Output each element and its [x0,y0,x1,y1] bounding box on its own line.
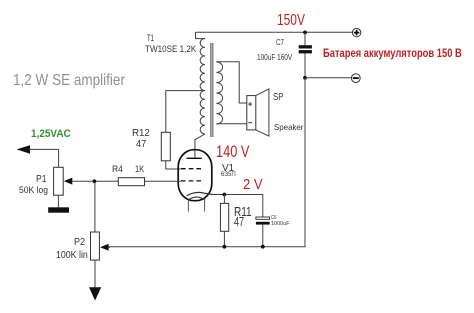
label P2 [74,238,85,248]
speaker SP [247,89,269,136]
resistor R4 [118,178,144,186]
wire UL tap to R12 [166,91,203,133]
label C6 value [271,222,290,228]
label P1 [36,175,47,185]
label R12 value 47 [136,139,146,150]
wire P2 wiper to bottom rail [108,246,110,248]
node P1 wiper junction [93,179,97,183]
resistor R12 [161,132,170,161]
wire R11 bottom [223,231,225,246]
label R11 [234,205,252,218]
capacitor C6 minus plate [256,222,270,225]
ground arrow below P2 [89,287,101,300]
label C7 [276,39,284,47]
wire secondary bottom to speaker minus [216,123,246,125]
label 50K log [19,185,48,194]
label SP [273,93,283,103]
label 150V [277,13,305,29]
wire C7 bottom lead [304,53,306,77]
label battery red [323,49,462,61]
resistor R11 [220,203,228,231]
wire B+ top rail [196,31,353,33]
label R12 [132,129,150,139]
potentiometer P1 [54,167,64,195]
wire secondary top to speaker plus [216,62,246,103]
node battery minus junction [303,76,307,80]
label T1 [147,34,154,43]
tube V1 envelope [178,150,212,201]
label C6 [271,216,276,222]
capacitor C6 plus plate [256,217,270,219]
wire minus rail right side and bottom rail [109,78,306,247]
tube plate [187,157,202,159]
label 2 V [243,178,263,193]
title text [13,73,125,89]
potentiometer P2 [91,232,100,260]
ground bar below P1 [48,207,69,212]
tube heater [188,197,204,200]
wire P1 wiper to R4 [72,180,118,182]
node 150V junction [303,31,307,35]
wire C6 bottom [262,225,264,247]
label tube type [221,172,236,179]
transformer T1 secondary winding [216,62,222,124]
wire C7 top lead [304,32,306,45]
wire input to P1 [30,149,59,167]
transformer T1 primary top lead [196,32,206,38]
capacitor C7 [299,45,312,53]
wire junction down to P2 [94,181,96,232]
label 1K [135,164,144,173]
P2 wiper arrow [100,244,109,251]
wire to minus terminal [305,77,351,79]
battery plus terminal [352,28,360,36]
wire primary bottom to plate [195,134,205,158]
tube cathode [187,192,213,195]
wire P1 bottom to ground [57,195,59,207]
tube heater pins [188,199,204,212]
wire R12 to screen grid [166,161,181,169]
wire R4 to control grid [145,180,182,182]
label Speaker [274,123,303,132]
input terminal arrow [17,145,31,154]
transformer core [211,43,213,137]
label C7 value [257,53,292,62]
tube screen grid (dashed) [181,168,203,170]
label TW10SE 1,2K [145,45,196,54]
label 100K lin [56,251,88,261]
transformer T1 primary winding [200,39,205,134]
wire cathode to R11 [223,195,225,204]
label 1,25VAC [31,129,71,140]
P1 wiper arrow [64,178,73,185]
node cathode junction [223,193,227,197]
wire P2 bottom [94,260,96,287]
wire cathode to C6 branch [213,195,263,218]
label R11 value 47 [234,215,244,228]
label R4 [112,164,123,173]
battery minus terminal [351,74,360,83]
tube control grid (dashed) [181,180,203,182]
node R11 bottom junction [223,245,227,249]
node C6 bottom junction [261,245,265,249]
label V1 [222,164,234,174]
label 140 V [216,144,249,160]
